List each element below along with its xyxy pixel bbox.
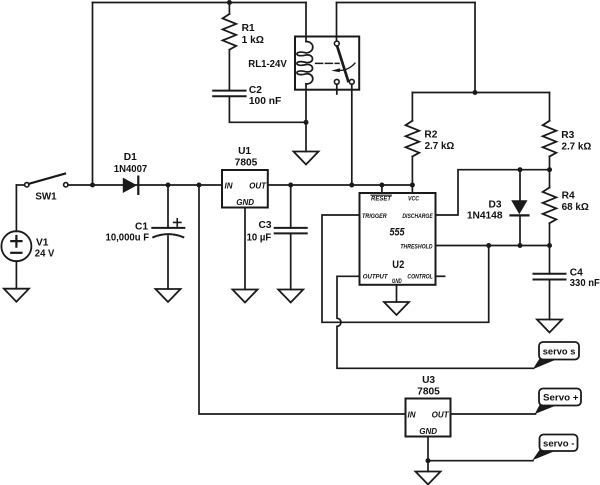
wire reset pin stub (381, 185, 383, 193)
wire C2 bottom to coil bottom (229, 96, 306, 122)
svg-text:VCC: VCC (408, 196, 419, 203)
svg-text:U3: U3 (422, 375, 435, 386)
node net B junction (473, 90, 478, 95)
node C1 junction (166, 183, 171, 188)
wire R2 top lead (411, 93, 413, 121)
svg-text:R1: R1 (242, 23, 255, 34)
node top-left vertical junction (90, 183, 95, 188)
capacitor C3 (275, 185, 307, 290)
svg-text:1N4007: 1N4007 (114, 164, 148, 175)
svg-text:10,000u F: 10,000u F (106, 233, 150, 244)
svg-text:1 kΩ: 1 kΩ (242, 35, 264, 46)
wire trigger loop (322, 215, 489, 322)
svg-text:Servo +: Servo + (543, 392, 579, 403)
ground C3 (278, 290, 303, 303)
relay contact top (334, 41, 339, 46)
wire relay common to rail (351, 85, 353, 186)
wire 555 gnd pin (396, 285, 398, 302)
svg-text:TRIGGER: TRIGGER (362, 213, 387, 220)
wire U1 gnd (244, 208, 246, 290)
ground U1 (233, 290, 258, 303)
regulator U1 box (222, 170, 268, 208)
ground U3 (416, 472, 441, 485)
node trigger loop junction (486, 243, 491, 248)
diode D3 (511, 200, 529, 215)
svg-text:C4: C4 (570, 267, 583, 278)
ground relay coil (294, 152, 319, 165)
svg-text:OUT: OUT (432, 410, 450, 419)
svg-text:RL1-24V: RL1-24V (248, 59, 287, 70)
svg-text:C3: C3 (258, 220, 271, 231)
svg-text:555: 555 (390, 227, 406, 239)
svg-text:D3: D3 (488, 199, 501, 210)
wire R2-R3 top rail (412, 92, 549, 94)
node relay common junction (349, 183, 354, 188)
wire U3 gnd (427, 437, 429, 472)
wire net A left vertical (92, 3, 94, 186)
svg-text:10 µF: 10 µF (247, 233, 272, 244)
node R3-R4 junction (547, 167, 552, 172)
relay contact common (349, 79, 354, 84)
svg-text:V1: V1 (36, 238, 49, 249)
wire net B right vertical (474, 3, 476, 93)
wire D3 cathode lead (519, 215, 521, 245)
svg-text:U1: U1 (238, 146, 251, 157)
relay RL1 box (295, 37, 359, 90)
wire C4 bottom lead (549, 280, 551, 320)
wire threshold net (436, 245, 550, 247)
svg-text:CONTROL: CONTROL (407, 274, 432, 281)
svg-text:100 nF: 100 nF (249, 96, 281, 107)
wire net A top horizontal (93, 2, 307, 4)
regulator U3 box (406, 399, 451, 437)
svg-text:7805: 7805 (235, 157, 258, 168)
node D3 top junction (518, 167, 523, 172)
svg-text:IN: IN (225, 182, 233, 191)
wire R3 bottom lead (549, 157, 551, 170)
node reset junction (379, 183, 384, 188)
wire R4 top lead (549, 170, 551, 188)
svg-text:2.7 kΩ: 2.7 kΩ (425, 141, 455, 152)
capacitor C1 (152, 185, 184, 289)
timer U2 box (360, 193, 436, 285)
flag servo - (532, 435, 577, 461)
svg-text:1N4148: 1N4148 (467, 210, 503, 221)
svg-text:GND: GND (236, 198, 254, 207)
relay contact NO (334, 79, 339, 84)
wire R1 to C2 (228, 50, 230, 91)
wire coil bottom to ground (305, 84, 307, 152)
relay switch blade (337, 46, 348, 81)
svg-text:IN: IN (408, 410, 416, 419)
node D3 cathode junction (518, 243, 523, 248)
wire main rail left (68, 184, 222, 186)
wire R2 bottom lead (411, 157, 413, 186)
wire net B top horizontal (337, 2, 476, 4)
svg-text:D1: D1 (124, 152, 137, 163)
diode D1 (123, 177, 139, 194)
wire to servo- (428, 460, 533, 462)
capacitor C2 (213, 91, 245, 97)
svg-text:R3: R3 (561, 130, 574, 141)
wire R1 top lead (228, 3, 230, 15)
source V1 (1, 185, 31, 289)
svg-text:THRESHOLD: THRESHOLD (400, 244, 432, 251)
node coil/C2 junction (304, 120, 309, 125)
svg-text:330 nF: 330 nF (570, 278, 600, 289)
svg-text:servo -: servo - (543, 438, 574, 449)
node vcc junction (410, 183, 415, 188)
svg-text:DISCHARGE: DISCHARGE (402, 213, 433, 220)
wire vcc pin stub (411, 185, 413, 193)
node U3 branch junction (197, 183, 202, 188)
svg-text:7805: 7805 (417, 387, 440, 398)
svg-text:U2: U2 (392, 259, 404, 271)
relay actuator dashed link (316, 62, 339, 64)
wire relay NO stub (336, 85, 338, 95)
wire output to servo s with hop (337, 276, 534, 368)
wire R3 top lead (549, 93, 551, 121)
node C3 junction (288, 183, 293, 188)
ground C4 (537, 320, 562, 333)
node R4-C4 junction (547, 243, 552, 248)
svg-text:GND: GND (392, 278, 402, 285)
svg-text:OUT: OUT (249, 182, 267, 191)
svg-text:68 kΩ: 68 kΩ (562, 202, 589, 213)
node U3 gnd junction (426, 458, 431, 463)
555 reset overline (371, 194, 391, 196)
relay coil (297, 42, 313, 85)
svg-text:GND: GND (419, 427, 437, 436)
resistor R2 (406, 121, 420, 157)
svg-text:C1: C1 (135, 221, 148, 232)
flag Servo + (535, 389, 581, 415)
wire discharge net (436, 170, 550, 215)
svg-text:R4: R4 (562, 191, 575, 202)
svg-text:24 V: 24 V (35, 249, 55, 260)
relay arrow (331, 63, 355, 72)
svg-text:2.7 kΩ: 2.7 kΩ (562, 141, 592, 152)
capacitor C4 (534, 274, 566, 280)
flag servo s (533, 342, 579, 369)
ground C1 (156, 289, 181, 302)
svg-text:SW1: SW1 (35, 192, 57, 203)
wire D3 anode lead (519, 170, 521, 201)
wire main rail right (268, 184, 413, 186)
wire coil top lead (305, 3, 307, 42)
ground V1 (4, 289, 29, 302)
resistor R1 (223, 14, 237, 50)
ground 555 (384, 302, 409, 315)
wire V1 to switch (16, 184, 24, 186)
wire U3 out to servo+ (451, 413, 536, 415)
wire switch top lead (336, 3, 338, 41)
node R1 top junction (227, 0, 232, 5)
wire U3 branch (199, 185, 406, 414)
svg-text:OUTPUT: OUTPUT (363, 274, 389, 281)
svg-text:R2: R2 (424, 130, 437, 141)
resistor R4 (543, 188, 557, 224)
switch SW1 (25, 174, 68, 187)
wire R4 bottom lead (549, 223, 551, 245)
wire C4 top lead (549, 246, 551, 274)
resistor R3 (543, 121, 557, 157)
wire control stub (436, 275, 445, 277)
svg-text:servo s: servo s (543, 346, 576, 357)
svg-text:RESET: RESET (371, 196, 392, 203)
svg-text:C2: C2 (249, 85, 262, 96)
